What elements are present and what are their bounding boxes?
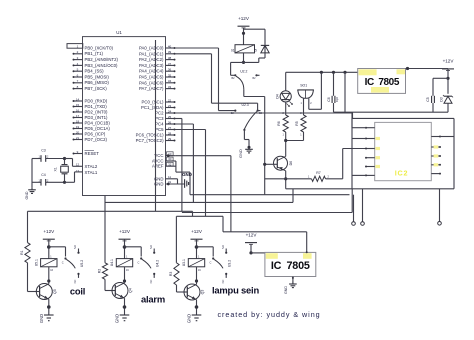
wire coil to collector <box>48 267 50 284</box>
IC2 module connector <box>375 122 432 180</box>
svg-text:Q4: Q4 <box>129 288 133 293</box>
wire R5 R6 bottoms join <box>285 132 287 156</box>
wire emitter to ground <box>124 298 126 315</box>
wire PA1 to U2.3 right <box>175 53 212 55</box>
node pin1 net box on PB0 <box>67 44 83 49</box>
svg-text:PC5: PC5 <box>155 127 164 132</box>
svg-text:30pF: 30pF <box>337 96 339 102</box>
wire SO1 right leg loop <box>309 108 322 110</box>
svg-text:D3: D3 <box>440 97 444 102</box>
svg-text:+12V: +12V <box>43 229 55 234</box>
relay contact U3.2 <box>212 257 214 259</box>
IC U1 microcontroller ATmega16 <box>83 37 166 196</box>
svg-text:PD2_(INT0): PD2_(INT0) <box>85 109 108 114</box>
svg-text:PA6_(ADC6): PA6_(ADC6) <box>139 80 164 85</box>
svg-text:+12V: +12V <box>238 16 250 21</box>
relay contact U4.2 <box>140 257 142 259</box>
wire R3 to base <box>176 285 178 292</box>
svg-text:U3.2: U3.2 <box>228 260 232 267</box>
svg-text:PD6_(ICP): PD6_(ICP) <box>85 131 106 136</box>
svg-text:R1: R1 <box>20 250 24 255</box>
transistor Q4 <box>112 283 128 299</box>
wire VCC to regulator <box>176 155 231 157</box>
svg-text:PB6_(MISO): PB6_(MISO) <box>85 80 110 85</box>
ground for crystal caps <box>31 159 33 188</box>
transistor Q5 <box>36 284 52 300</box>
wire IC2 pin row 2 <box>352 138 366 140</box>
wire coil bottom node <box>243 53 245 63</box>
relay coil U4.1 <box>116 259 132 267</box>
svg-text:U4.2: U4.2 <box>156 260 160 267</box>
svg-text:PC7_(TOSC2): PC7_(TOSC2) <box>136 138 164 143</box>
relay coil U5.1 <box>41 259 57 267</box>
voltage regulator IC 7805 bottom <box>265 252 316 276</box>
svg-text:RESET: RESET <box>85 151 100 156</box>
ground Q5 <box>44 314 54 316</box>
svg-text:R2: R2 <box>98 269 102 274</box>
relay contact U5.2 <box>64 257 66 259</box>
svg-text:C5: C5 <box>426 97 430 102</box>
svg-text:U2.2: U2.2 <box>240 69 247 73</box>
svg-text:Q3: Q3 <box>201 290 205 295</box>
svg-text:PA7_(ADC7): PA7_(ADC7) <box>139 86 164 91</box>
svg-text:U5.1: U5.1 <box>34 259 38 266</box>
svg-text:R5: R5 <box>295 121 299 126</box>
svg-text:AREF: AREF <box>152 164 164 169</box>
wire bus2 under 7805 <box>353 117 455 119</box>
svg-text:PA5_(ADC5): PA5_(ADC5) <box>139 75 164 80</box>
svg-text:PA4_(ADC4): PA4_(ADC4) <box>139 69 164 74</box>
svg-text:PA2_(ADC2): PA2_(ADC2) <box>139 57 164 62</box>
svg-text:C3: C3 <box>41 149 46 153</box>
svg-text:D4: D4 <box>276 94 280 99</box>
transistor D6 <box>274 156 288 170</box>
svg-text:+12V: +12V <box>246 232 258 237</box>
wire coil to collector <box>196 267 198 285</box>
wire +12V to coil U2.1 <box>243 28 245 45</box>
svg-text:XTAL1: XTAL1 <box>85 170 98 175</box>
svg-text:PA3_(ADC3): PA3_(ADC3) <box>139 63 164 68</box>
wire C6 branch <box>344 72 346 112</box>
svg-text:U3.1: U3.1 <box>182 259 186 266</box>
diode D1 flyback <box>264 45 266 53</box>
svg-text:C: C <box>138 261 140 265</box>
svg-text:NC: NC <box>149 280 153 284</box>
svg-text:IC 7805: IC 7805 <box>271 260 310 272</box>
LED D4 <box>280 91 291 102</box>
svg-text:PD5_(OC1A): PD5_(OC1A) <box>85 126 111 131</box>
svg-text:NC: NC <box>73 280 77 284</box>
svg-text:C6: C6 <box>327 97 331 102</box>
svg-text:R3: R3 <box>169 272 173 277</box>
svg-text:PD3_(INT1): PD3_(INT1) <box>85 115 108 120</box>
wire PC3 route down left <box>175 118 182 120</box>
wire bus under 7805 <box>334 111 449 113</box>
svg-text:R6: R6 <box>277 121 281 126</box>
wire crystal to XTAL2 <box>65 158 73 160</box>
svg-text:PB2_(AIN0/INT2): PB2_(AIN0/INT2) <box>85 57 119 62</box>
wire R2 to base <box>104 279 106 290</box>
svg-text:PC3: PC3 <box>155 116 164 121</box>
wire R1 up to channel <box>27 211 29 242</box>
wire emitter to ground <box>196 300 198 315</box>
svg-text:C4: C4 <box>41 173 46 177</box>
ground Q3 <box>192 314 202 316</box>
svg-text:PB4_(SS): PB4_(SS) <box>85 69 105 74</box>
ground bottom 7805 <box>292 282 294 285</box>
wire R1 to base <box>27 263 29 292</box>
svg-text:GND: GND <box>284 286 288 294</box>
svg-text:PD0_(RXD): PD0_(RXD) <box>85 98 108 103</box>
svg-text:IC2: IC2 <box>395 168 409 177</box>
wire IC2 outer rect left <box>351 118 353 188</box>
svg-text:NO: NO <box>221 245 225 249</box>
node open terminal 2 <box>362 189 364 222</box>
node open terminal 3 <box>439 189 441 222</box>
svg-text:X1: X1 <box>54 167 58 171</box>
svg-text:PB0_(XCK/T0): PB0_(XCK/T0) <box>85 45 114 50</box>
wire U2.3 arm to ground <box>243 130 245 140</box>
wire coil to collector <box>124 267 126 283</box>
svg-text:XTAL2: XTAL2 <box>85 164 98 169</box>
svg-text:PD1_(TXD): PD1_(TXD) <box>85 104 108 109</box>
svg-text:created by: yuddy & wing: created by: yuddy & wing <box>218 310 321 319</box>
svg-text:PC2: PC2 <box>155 111 164 116</box>
svg-text:GND: GND <box>238 149 243 158</box>
wire +12V to 7805 input <box>250 244 252 253</box>
wire Q6 base loop <box>265 178 286 180</box>
ground MCU <box>184 179 186 188</box>
wire R7 to IC2 <box>342 149 344 179</box>
relay coil U3.1 <box>188 259 204 267</box>
wire Q6 emitter down <box>285 171 287 189</box>
wire crystal to XTAL1 <box>65 181 75 183</box>
wire R2 drop <box>104 196 106 263</box>
wire PC5 route down <box>175 129 206 131</box>
svg-text:PC6_(TOSC1): PC6_(TOSC1) <box>136 133 164 138</box>
svg-text:+12V: +12V <box>119 229 131 234</box>
ground U2.3 <box>248 147 250 150</box>
wire PA0 to U2.3 left <box>175 47 219 49</box>
svg-text:GND: GND <box>39 314 44 323</box>
svg-text:U1: U1 <box>116 30 122 35</box>
wire line A bottom <box>286 188 454 190</box>
wire PC4 route down left <box>175 123 194 125</box>
svg-text:5: 5 <box>255 49 257 53</box>
svg-text:+12V: +12V <box>443 59 455 64</box>
wire U2.2 arm to Q6 base <box>243 89 245 96</box>
wire +12V to coil U3.1 <box>196 239 198 258</box>
svg-text:Q5: Q5 <box>53 289 57 294</box>
wire 7805 out up to VCC channel <box>306 232 308 253</box>
wire +12V to coil U4.1 <box>124 239 126 258</box>
svg-text:C: C <box>62 261 64 265</box>
node open terminal 1 <box>353 195 355 222</box>
svg-text:GND: GND <box>25 191 29 199</box>
wire PC2 to IC2 <box>175 112 353 114</box>
wire outer rect bottom <box>182 212 352 214</box>
svg-text:coil: coil <box>70 286 85 297</box>
transistor Q3 <box>184 284 200 300</box>
svg-text:PC4: PC4 <box>155 122 164 127</box>
svg-text:alarm: alarm <box>141 294 165 305</box>
svg-text:PA1_(ADC1): PA1_(ADC1) <box>139 51 164 56</box>
svg-text:GND: GND <box>115 314 120 323</box>
relay coil U2.1 <box>235 45 255 53</box>
ground Q4 <box>120 314 130 316</box>
wire vertical through MCU <box>155 40 157 211</box>
wire R3 to channel <box>175 216 177 262</box>
svg-text:D6: D6 <box>289 161 293 166</box>
svg-text:NO: NO <box>73 245 77 249</box>
voltage regulator IC 7805 top <box>358 69 406 94</box>
svg-text:C: C <box>210 261 212 265</box>
wire GND pins loop <box>166 178 178 180</box>
svg-text:+12V: +12V <box>191 229 203 234</box>
wire 7805 out to +12V node <box>406 68 449 70</box>
wire emitter to ground <box>48 299 50 315</box>
wire mid channel <box>190 194 350 196</box>
wire +12V to coil U5.1 <box>48 239 50 258</box>
wire inner channel <box>105 201 293 203</box>
wire long bottom channel <box>28 210 193 212</box>
svg-text:PC1_(SDA): PC1_(SDA) <box>141 105 164 110</box>
svg-text:PB3_(AIN1/OC0): PB3_(AIN1/OC0) <box>85 63 119 68</box>
svg-text:PB5_(MOSI): PB5_(MOSI) <box>85 74 110 79</box>
svg-text:U4.1: U4.1 <box>110 259 114 266</box>
svg-text:PC0_(SCL): PC0_(SCL) <box>142 100 165 105</box>
svg-text:NC: NC <box>221 280 225 284</box>
svg-text:PA0_(ADC0): PA0_(ADC0) <box>139 46 164 51</box>
wire 7805 ground pin <box>292 277 294 282</box>
svg-text:NO: NO <box>149 245 153 249</box>
svg-text:PD7_(OC2): PD7_(OC2) <box>85 137 108 142</box>
wire top rail to 7805 <box>286 71 358 73</box>
svg-text:GND: GND <box>187 314 192 323</box>
svg-text:PD4_(OC1B): PD4_(OC1B) <box>85 120 111 125</box>
svg-text:PB7_(SCK): PB7_(SCK) <box>85 86 108 91</box>
svg-text:PB1_(T1): PB1_(T1) <box>85 51 104 56</box>
svg-text:IC 7805: IC 7805 <box>365 77 400 88</box>
svg-text:U2.3: U2.3 <box>242 103 249 107</box>
svg-text:ŏ1: ŏ1 <box>231 49 235 53</box>
svg-text:lampu sein: lampu sein <box>212 285 259 296</box>
svg-text:R7: R7 <box>316 171 321 175</box>
svg-text:U5.2: U5.2 <box>80 260 84 267</box>
svg-text:SO1: SO1 <box>300 84 307 88</box>
